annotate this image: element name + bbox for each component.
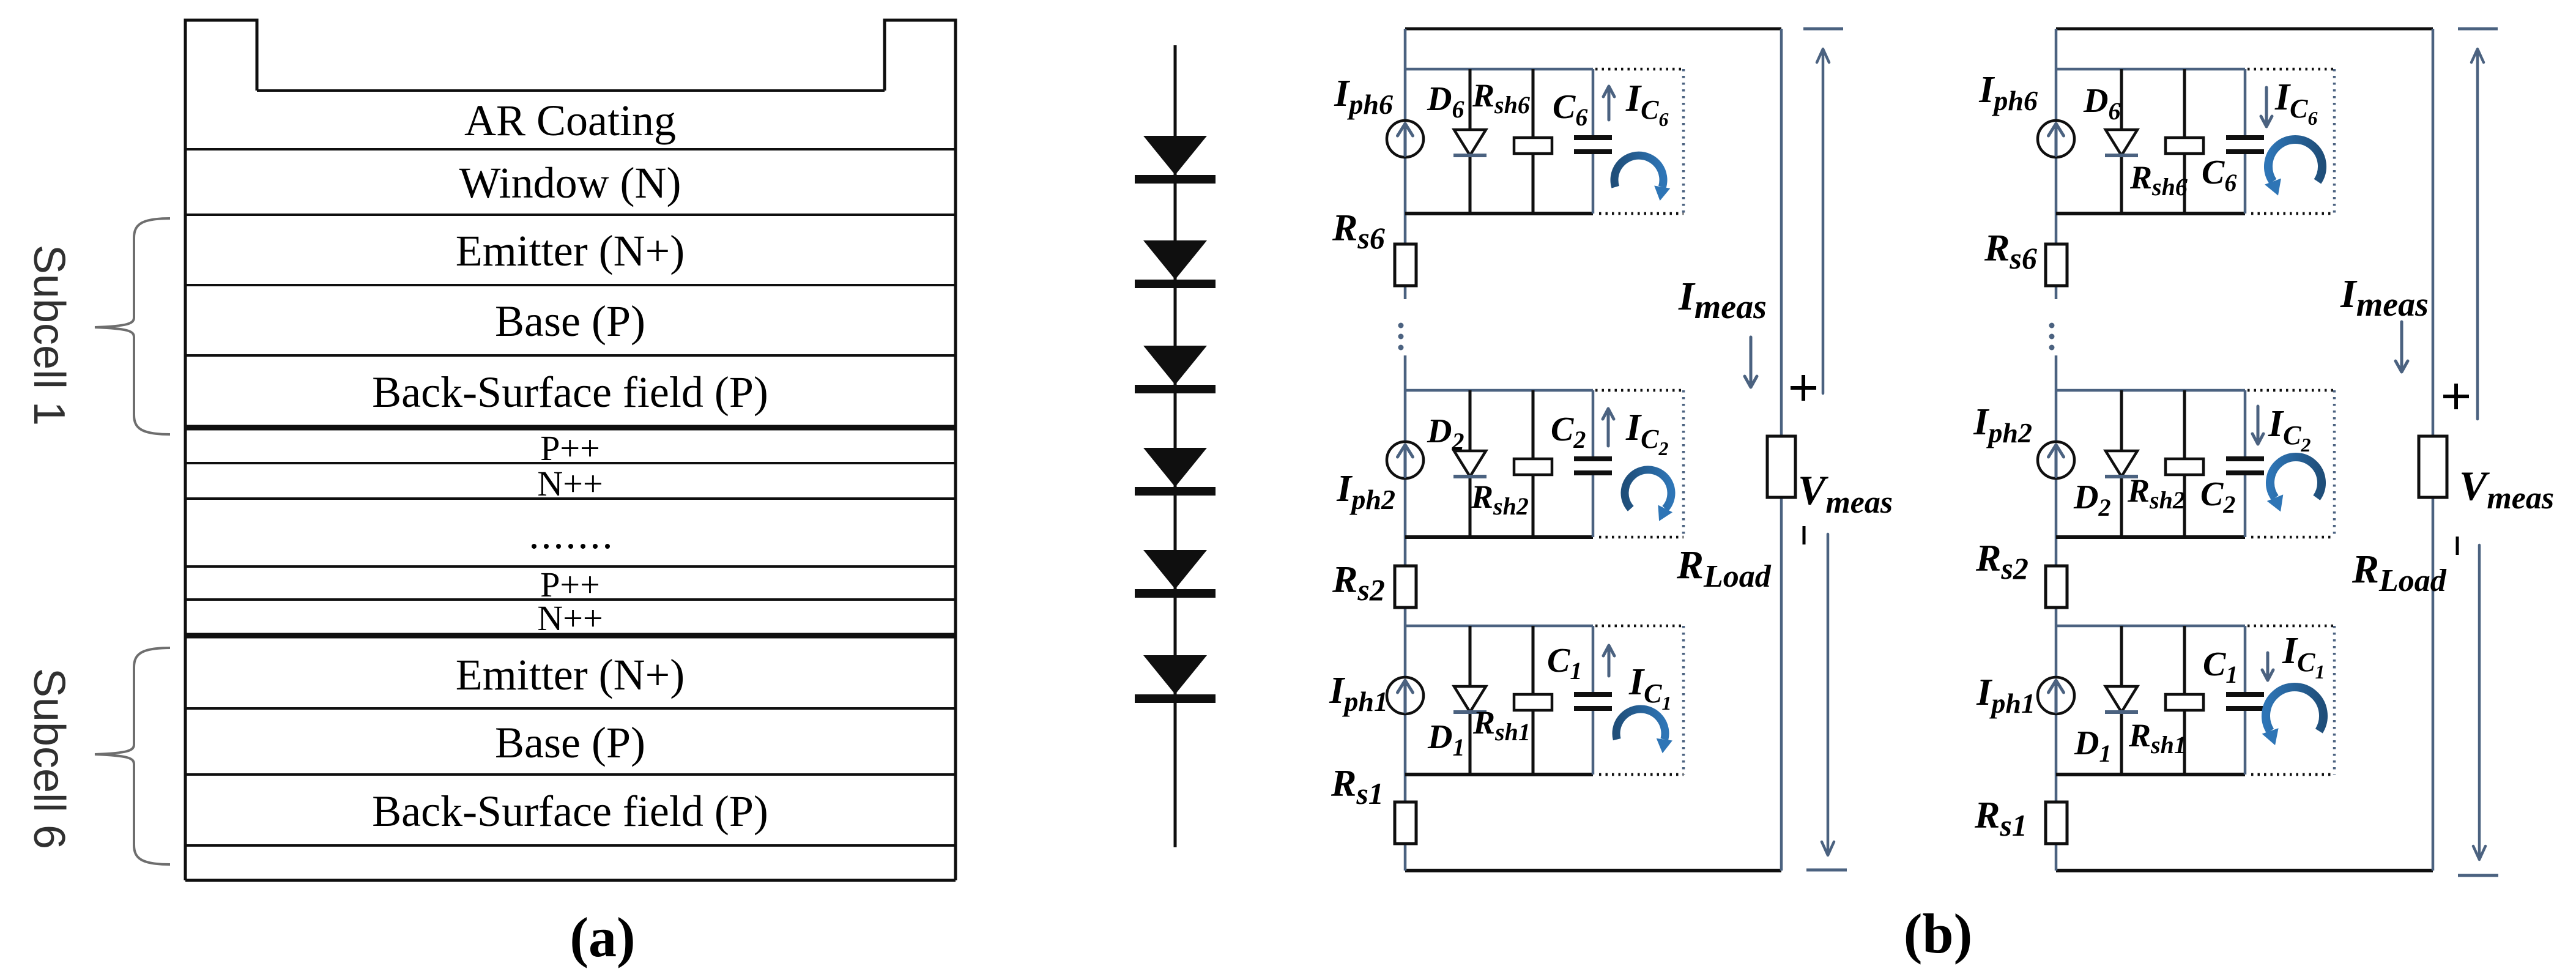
diode D2 circuit 2 bbox=[2120, 390, 2123, 537]
current source Iph6 circuit 2 bbox=[2038, 121, 2074, 157]
series resistor Rs1 circuit 1 bbox=[1395, 802, 1416, 844]
wire bottom rail circuit 1 bbox=[1405, 869, 1781, 872]
arrow Imeas direction circuit 1 bbox=[1745, 337, 1757, 387]
wire top rail circuit 1 bbox=[1405, 28, 1781, 31]
diode D2 circuit 1 bbox=[1469, 390, 1472, 537]
load resistor RLoad circuit 1 bbox=[1767, 436, 1795, 497]
svg-text:(a): (a) bbox=[570, 906, 635, 968]
series resistor Rs1 circuit 2 bbox=[2046, 802, 2067, 844]
dotted measurement box subcell 2 circuit 1 bbox=[1595, 389, 1683, 392]
subcell 2 block outline circuit 2 bbox=[2056, 389, 2245, 392]
layer N++ tunnel junction 5 bbox=[185, 633, 956, 639]
capacitor current arrow IC1 circuit 1 bbox=[1603, 645, 1614, 676]
dotted measurement box subcell 1 circuit 1 bbox=[1595, 625, 1683, 628]
capacitor current arrow IC1 circuit 2 bbox=[2262, 653, 2273, 680]
loop direction arrow subcell 1 circuit 2 bbox=[2266, 687, 2323, 731]
shunt resistor Rsh2 circuit 2 bbox=[2183, 390, 2186, 537]
diode D6 circuit 1 bbox=[1469, 69, 1472, 214]
subcell 6 block outline circuit 1 bbox=[1405, 68, 1593, 71]
brace Subcell 1 bbox=[95, 218, 170, 434]
svg-text:Back-Surface field (P): Back-Surface field (P) bbox=[372, 787, 768, 836]
capacitor C1 circuit 1 bbox=[1574, 692, 1612, 697]
voltage arrow down circuit 2 bbox=[2473, 545, 2485, 860]
loop direction arrow subcell 2 circuit 1 bbox=[1625, 470, 1671, 508]
subcell 1 block outline circuit 1 bbox=[1405, 625, 1593, 628]
load resistor RLoad circuit 2 bbox=[2419, 436, 2447, 497]
capacitor current arrow IC6 circuit 1 bbox=[1603, 86, 1614, 120]
voltage arrow up circuit 1 bbox=[1817, 49, 1829, 393]
layer Base (P) subcell 6 bbox=[185, 773, 956, 776]
top tick mark circuit 2 bbox=[2458, 28, 2498, 31]
voltage arrow down circuit 1 bbox=[1822, 534, 1834, 855]
diode chain D1 bbox=[1143, 655, 1207, 694]
series resistor Rs2 circuit 2 bbox=[2046, 566, 2067, 607]
series resistor Rs2 circuit 1 bbox=[1395, 566, 1416, 607]
svg-text:P++: P++ bbox=[540, 428, 600, 468]
diode chain D3 bbox=[1143, 448, 1207, 487]
diode chain D2 bbox=[1143, 550, 1207, 589]
layer Back-Surface field (P) subcell 1 bbox=[185, 425, 956, 431]
svg-text:Window (N): Window (N) bbox=[459, 158, 681, 207]
plus sign voltage polarity circuit 1 bbox=[1791, 375, 1816, 401]
wire left column lower circuit 1 bbox=[1404, 355, 1407, 871]
wire top rail circuit 2 bbox=[2056, 28, 2433, 31]
capacitor C6 circuit 2 bbox=[2226, 135, 2264, 140]
capacitor C6 circuit 1 bbox=[1574, 135, 1612, 140]
wire right column circuit 2 bbox=[2432, 29, 2435, 871]
minus sign voltage polarity circuit 2 bbox=[2456, 537, 2459, 555]
loop direction arrow subcell 6 circuit 2 bbox=[2268, 139, 2322, 182]
layer Base (P) subcell 1 bbox=[185, 354, 956, 357]
svg-text:Base (P): Base (P) bbox=[495, 718, 645, 767]
junction dots between Rs6 and subcell 2, circuit 2 bbox=[2049, 323, 2055, 329]
subcell 2 block outline circuit 1 bbox=[1405, 389, 1593, 392]
wire bottom rail circuit 2 bbox=[2056, 869, 2433, 872]
capacitor current arrow IC2 circuit 1 bbox=[1603, 409, 1614, 446]
arrow Imeas direction circuit 2 bbox=[2396, 322, 2408, 372]
wire left column lower circuit 2 bbox=[2055, 355, 2058, 871]
dotted measurement box subcell 1 circuit 2 bbox=[2248, 625, 2334, 628]
shunt resistor Rsh2 circuit 1 bbox=[1532, 390, 1535, 537]
loop direction arrow subcell 6 circuit 1 bbox=[1614, 155, 1663, 187]
diode D1 circuit 2 bbox=[2120, 626, 2123, 775]
wire right column circuit 1 bbox=[1780, 29, 1783, 871]
capacitor C2 circuit 2 bbox=[2226, 456, 2264, 461]
diode chain D4 bbox=[1143, 346, 1207, 385]
shunt resistor Rsh6 circuit 1 bbox=[1532, 69, 1535, 214]
capacitor C2 circuit 1 bbox=[1574, 456, 1612, 461]
series resistor Rs6 circuit 2 bbox=[2046, 244, 2067, 286]
svg-text:AR Coating: AR Coating bbox=[464, 96, 676, 145]
svg-text:Back-Surface field (P): Back-Surface field (P) bbox=[372, 368, 768, 417]
layer P++ tunnel junction 1 bbox=[185, 462, 956, 464]
capacitor C1 circuit 2 bbox=[2226, 692, 2264, 697]
current source Iph1 circuit 2 bbox=[2038, 677, 2074, 714]
brace Subcell 6 bbox=[95, 648, 170, 864]
capacitor current arrow IC2 circuit 2 bbox=[2252, 406, 2263, 444]
diode D6 circuit 2 bbox=[2120, 69, 2123, 214]
ellipsis layers bbox=[185, 565, 956, 568]
layer N++ tunnel junction 1 bbox=[185, 497, 956, 500]
plus sign voltage polarity circuit 2 bbox=[2443, 384, 2469, 409]
layer Emitter (N+) subcell 1 bbox=[185, 284, 956, 286]
current source Iph6 circuit 1 bbox=[1387, 121, 1423, 157]
diode chain D6 bbox=[1143, 136, 1207, 175]
dotted measurement box subcell 2 circuit 2 bbox=[2248, 389, 2334, 392]
layer stack outer box bbox=[185, 20, 956, 880]
shunt resistor Rsh1 circuit 1 bbox=[1532, 626, 1535, 775]
svg-text:Subcell 6: Subcell 6 bbox=[24, 668, 73, 849]
minus sign voltage polarity circuit 1 bbox=[1803, 526, 1806, 544]
shunt resistor Rsh6 circuit 2 bbox=[2183, 69, 2186, 214]
dotted measurement box subcell 6 circuit 2 bbox=[2248, 68, 2334, 71]
loop direction arrow subcell 1 circuit 1 bbox=[1616, 709, 1665, 740]
current source Iph2 circuit 1 bbox=[1387, 442, 1423, 478]
top tick mark circuit 1 bbox=[1803, 28, 1843, 31]
svg-text:N++: N++ bbox=[537, 464, 603, 503]
wire left column circuit 2 bbox=[2055, 29, 2058, 299]
svg-text:Subcell 1: Subcell 1 bbox=[24, 245, 73, 426]
voltage arrow up circuit 2 bbox=[2471, 49, 2484, 419]
series resistor Rs6 circuit 1 bbox=[1395, 244, 1416, 286]
svg-text:Base (P): Base (P) bbox=[495, 297, 645, 346]
dotted measurement box subcell 6 circuit 1 bbox=[1595, 68, 1683, 71]
svg-text:N++: N++ bbox=[537, 598, 603, 638]
layer AR Coating bbox=[257, 89, 885, 92]
svg-text:Emitter (N+): Emitter (N+) bbox=[456, 226, 685, 275]
layer Emitter (N+) subcell 6 bbox=[185, 707, 956, 710]
subcell 6 block outline circuit 2 bbox=[2056, 68, 2245, 71]
diode chain D5 bbox=[1143, 240, 1207, 280]
capacitor current arrow IC6 circuit 2 bbox=[2261, 87, 2272, 127]
wire series diode string bbox=[1174, 45, 1177, 847]
svg-text:Emitter (N+): Emitter (N+) bbox=[456, 650, 685, 699]
current source Iph1 circuit 1 bbox=[1387, 677, 1423, 714]
bottom tick mark circuit 1 bbox=[1806, 869, 1847, 872]
diode D1 circuit 1 bbox=[1469, 626, 1472, 775]
wire left column circuit 1 bbox=[1404, 29, 1407, 299]
current source Iph2 circuit 2 bbox=[2038, 442, 2074, 478]
loop direction arrow subcell 2 circuit 2 bbox=[2270, 457, 2322, 498]
layer P++ tunnel junction 5 bbox=[185, 598, 956, 601]
junction dots between Rs6 and subcell 2, circuit 1 bbox=[1398, 323, 1404, 329]
shunt resistor Rsh1 circuit 2 bbox=[2183, 626, 2186, 775]
layer Window (N) bbox=[185, 214, 956, 216]
bottom tick mark circuit 2 bbox=[2458, 874, 2498, 877]
layer Back-Surface field (P) subcell 6 bbox=[185, 844, 956, 847]
svg-text:(b): (b) bbox=[1904, 902, 1972, 965]
subcell 1 block outline circuit 2 bbox=[2056, 625, 2245, 628]
